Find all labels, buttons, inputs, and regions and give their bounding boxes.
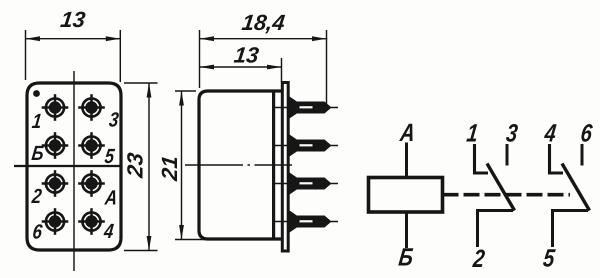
contact terminal 6 wire xyxy=(581,144,584,166)
dimension 23 arrowheads xyxy=(147,83,152,98)
relay body outline (bottom view) xyxy=(27,83,121,250)
pin 1 (bottom view) xyxy=(42,94,69,121)
svg-text:23: 23 xyxy=(123,151,148,180)
pin А (bottom view) xyxy=(78,170,105,197)
dimension 18,4 extension lines xyxy=(199,30,201,88)
orientation key dot xyxy=(33,90,40,97)
dimension 13 (side view) arrowheads xyxy=(200,65,215,70)
side view pin 4 xyxy=(274,210,338,234)
side view pin 3 xyxy=(274,172,338,196)
contact terminal 2 wire xyxy=(478,211,514,248)
dimension 23 (bottom view height) extension lines xyxy=(124,82,158,84)
vertical centerline xyxy=(73,71,75,271)
dimension 18,4 line xyxy=(200,38,328,40)
dimension 13 (side view) line xyxy=(200,66,282,68)
wire to coil terminal А xyxy=(405,143,408,178)
horizontal centerline (dash-dot) xyxy=(185,164,292,166)
pin 2 (bottom view) xyxy=(42,170,69,197)
pin Б (bottom view) xyxy=(42,132,69,159)
pin 5 (bottom view) xyxy=(78,132,105,159)
dimension 21 line xyxy=(181,91,183,240)
side view pin 1 xyxy=(274,96,338,120)
movable contact blade (contacts 4-5-6) xyxy=(562,164,590,211)
dimension 13 (side view) extension line xyxy=(281,58,283,82)
svg-text:13: 13 xyxy=(59,7,87,32)
pin 6 (bottom view) xyxy=(42,208,69,235)
dimension 21 extension lines xyxy=(175,90,196,92)
wire to coil terminal Б xyxy=(405,212,408,248)
dimension 21 arrowheads xyxy=(179,91,184,106)
svg-text:18,4: 18,4 xyxy=(240,10,286,35)
contact terminal 4 wire xyxy=(550,144,564,173)
svg-text:13: 13 xyxy=(233,43,261,68)
relay body right edge (side view) xyxy=(272,91,275,239)
dimension 13 arrowheads xyxy=(26,36,41,41)
dimension 18,4 arrowheads xyxy=(200,36,215,41)
contact terminal 3 wire xyxy=(506,144,509,166)
side view pin 2 xyxy=(274,134,338,158)
horizontal centerline xyxy=(14,165,121,167)
contact terminal 5 wire xyxy=(553,211,589,248)
contact terminal 1 wire xyxy=(475,144,489,173)
mounting flange plate xyxy=(282,83,288,252)
dimension 13 (bottom view width) extension lines xyxy=(25,30,27,80)
coil K1 xyxy=(369,178,443,213)
pin 3 (bottom view) xyxy=(78,94,105,121)
relay body outline (side view) xyxy=(199,91,281,239)
mechanical link (dashed) xyxy=(443,193,571,197)
svg-text:21: 21 xyxy=(157,154,182,183)
movable contact blade (contacts 1-2-3) xyxy=(487,164,515,211)
dimension 13 line xyxy=(26,38,121,40)
pin 4 (bottom view) xyxy=(78,208,105,235)
dimension 23 line xyxy=(148,83,150,251)
